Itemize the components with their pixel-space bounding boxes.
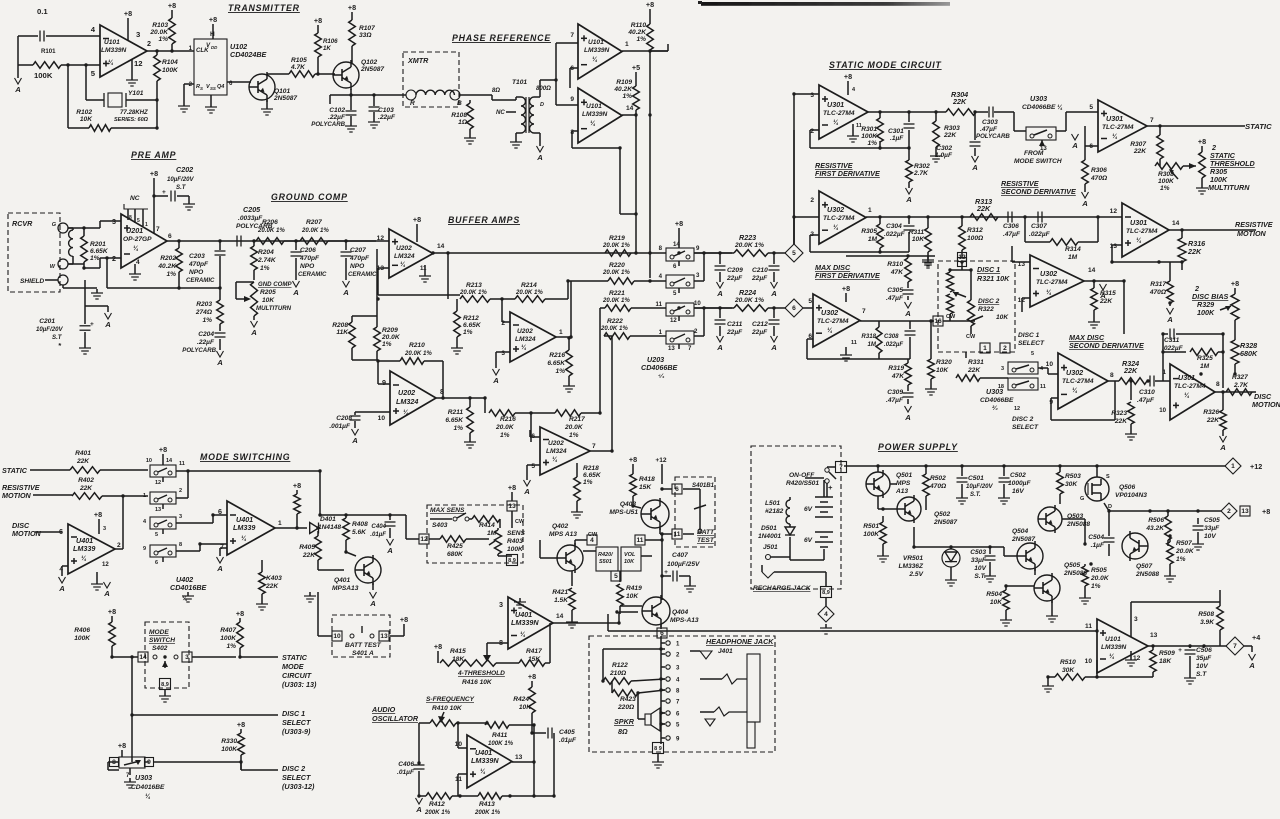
svg-text:R216: R216 <box>549 352 565 359</box>
svg-text:C103: C103 <box>378 107 394 114</box>
svg-text:¼: ¼ <box>81 555 87 562</box>
svg-text:R319: R319 <box>888 365 904 372</box>
svg-text:10: 10 <box>1159 407 1166 414</box>
svg-text:6: 6 <box>676 711 680 718</box>
svg-text:CD4016BE: CD4016BE <box>170 583 207 592</box>
svg-text:R421: R421 <box>552 589 568 596</box>
svg-text:S: S <box>200 86 203 91</box>
svg-text:A: A <box>58 584 65 593</box>
svg-text:R402: R402 <box>78 477 94 484</box>
svg-text:7: 7 <box>676 699 680 706</box>
svg-text:1%: 1% <box>500 432 510 439</box>
svg-text:R325: R325 <box>1197 355 1213 362</box>
svg-text:1000µF: 1000µF <box>1008 480 1031 487</box>
svg-text:2.7K: 2.7K <box>913 170 929 177</box>
svg-text:1N4148: 1N4148 <box>318 524 341 531</box>
svg-text:R326: R326 <box>1203 409 1219 416</box>
svg-text:R415: R415 <box>450 648 466 655</box>
svg-text:STATIC MODE CIRCUIT: STATIC MODE CIRCUIT <box>829 60 942 70</box>
svg-text:5: 5 <box>808 298 812 305</box>
svg-text:J501: J501 <box>763 544 778 551</box>
svg-text:8: 8 <box>676 688 680 695</box>
svg-text:3: 3 <box>185 654 189 661</box>
svg-text:1N4001: 1N4001 <box>758 533 781 540</box>
svg-text:11: 11 <box>851 340 857 346</box>
svg-text:9: 9 <box>143 546 146 552</box>
svg-text:10: 10 <box>146 458 152 464</box>
svg-text:+8: +8 <box>108 607 116 616</box>
svg-text:20.0K: 20.0K <box>1090 575 1110 582</box>
svg-text:13: 13 <box>508 503 516 510</box>
svg-text:220Ω: 220Ω <box>617 704 635 711</box>
svg-text:¼: ¼ <box>108 59 114 66</box>
svg-text:800Ω: 800Ω <box>536 85 551 92</box>
svg-text:R210: R210 <box>409 342 425 349</box>
svg-text:C204: C204 <box>198 331 214 338</box>
svg-text:1%: 1% <box>202 317 212 324</box>
svg-text:1: 1 <box>559 329 563 336</box>
svg-text:+8: +8 <box>844 72 852 81</box>
svg-text:SECOND DERIVATIVE: SECOND DERIVATIVE <box>1069 341 1144 350</box>
svg-text:10: 10 <box>1085 658 1093 665</box>
svg-text:77.28KHZ: 77.28KHZ <box>120 109 148 116</box>
svg-text:MPS-A13: MPS-A13 <box>670 617 699 624</box>
svg-text:D: D <box>540 102 544 108</box>
svg-text:4.7K: 4.7K <box>290 64 306 71</box>
svg-text:DISC 1: DISC 1 <box>977 265 1000 274</box>
svg-text:+4: +4 <box>1252 633 1260 642</box>
svg-text:100K 1%: 100K 1% <box>488 740 514 747</box>
svg-text:14: 14 <box>1172 220 1180 227</box>
svg-text:Q4: Q4 <box>217 84 224 90</box>
svg-text:6.65K: 6.65K <box>463 322 482 329</box>
svg-text:S401B1: S401B1 <box>692 482 715 489</box>
svg-text:¼: ¼ <box>1136 237 1142 244</box>
svg-text:A: A <box>904 413 911 422</box>
svg-text:+8: +8 <box>675 219 683 228</box>
svg-text:.01µF: .01µF <box>370 531 386 538</box>
svg-text:13: 13 <box>1110 243 1118 250</box>
svg-text:S402: S402 <box>152 645 168 652</box>
svg-text:(U303-12): (U303-12) <box>282 782 315 791</box>
svg-text:SWITCH: SWITCH <box>149 637 175 644</box>
svg-text:15K: 15K <box>639 484 652 491</box>
svg-text:11: 11 <box>674 531 681 538</box>
svg-text:3: 3 <box>136 30 140 39</box>
svg-text:+8: +8 <box>508 483 516 492</box>
svg-text:11: 11 <box>1085 623 1092 630</box>
svg-text:SENS: SENS <box>507 530 526 537</box>
svg-text:1: 1 <box>625 41 629 48</box>
svg-text:U202: U202 <box>517 328 533 335</box>
svg-text:.47µF: .47µF <box>886 295 904 302</box>
svg-text:C503: C503 <box>970 549 986 556</box>
svg-text:FIRST DERIVATIVE: FIRST DERIVATIVE <box>815 271 880 280</box>
svg-text:2: 2 <box>1227 508 1231 515</box>
svg-text:Q402: Q402 <box>552 523 568 530</box>
svg-text:22µF: 22µF <box>751 275 768 282</box>
svg-text:¼: ¼ <box>480 768 486 775</box>
svg-text:1%: 1% <box>260 265 270 272</box>
svg-text:¼: ¼ <box>833 224 839 231</box>
svg-text:R420/S501: R420/S501 <box>786 480 819 487</box>
svg-text:12: 12 <box>377 235 385 242</box>
svg-text:1%: 1% <box>622 93 632 100</box>
svg-text:U202: U202 <box>548 440 564 447</box>
svg-text:D401: D401 <box>320 516 336 523</box>
svg-text:C307: C307 <box>1031 223 1047 230</box>
svg-text:¼: ¼ <box>590 120 596 127</box>
svg-text:.22µF: .22µF <box>328 114 346 121</box>
svg-text:SHIELD: SHIELD <box>20 278 44 285</box>
svg-text:PRE AMP: PRE AMP <box>131 150 176 160</box>
svg-text:33Ω: 33Ω <box>359 32 372 39</box>
svg-text:Q404: Q404 <box>672 609 688 616</box>
svg-text:U101: U101 <box>588 39 604 46</box>
svg-text:7: 7 <box>862 308 866 315</box>
svg-text:7: 7 <box>570 32 574 39</box>
svg-text:R410 10K: R410 10K <box>432 705 463 712</box>
svg-text:R306: R306 <box>1091 167 1107 174</box>
svg-text:1%: 1% <box>453 425 463 432</box>
svg-text:C206: C206 <box>300 247 316 254</box>
svg-text:2: 2 <box>810 197 814 204</box>
svg-text:R311: R311 <box>909 229 925 236</box>
svg-text:¼: ¼ <box>133 245 139 252</box>
svg-text:3: 3 <box>1134 616 1138 623</box>
svg-text:¼: ¼ <box>833 119 839 126</box>
svg-text:10: 10 <box>333 633 341 640</box>
svg-text:R101: R101 <box>41 48 56 55</box>
svg-text:R209: R209 <box>382 327 398 334</box>
svg-text:R107: R107 <box>359 25 375 32</box>
svg-text:LM324: LM324 <box>546 448 567 455</box>
svg-text:POWER SUPPLY: POWER SUPPLY <box>878 442 958 452</box>
svg-text:8,9: 8,9 <box>508 558 516 564</box>
svg-text:MOTION: MOTION <box>1237 229 1267 238</box>
svg-text:22K: 22K <box>943 132 957 139</box>
svg-text:5: 5 <box>155 532 158 538</box>
svg-text:RCVR: RCVR <box>12 219 33 228</box>
svg-text:1%: 1% <box>583 479 593 486</box>
svg-text:A: A <box>351 436 358 445</box>
svg-text:¼: ¼ <box>592 56 598 63</box>
svg-text:+8: +8 <box>293 481 301 490</box>
svg-text:C306: C306 <box>1003 223 1019 230</box>
svg-text:A: A <box>536 153 543 162</box>
svg-text:#2182: #2182 <box>765 508 784 515</box>
svg-text:Q506: Q506 <box>1119 484 1135 491</box>
svg-text:Q504: Q504 <box>1012 528 1028 535</box>
svg-text:14: 14 <box>166 458 173 464</box>
svg-text:R102: R102 <box>76 109 92 116</box>
svg-text:A: A <box>716 289 723 298</box>
svg-text:5: 5 <box>673 290 677 297</box>
svg-text:DISC 1: DISC 1 <box>1018 332 1040 339</box>
svg-text:MPS: MPS <box>896 480 911 487</box>
svg-text:47K: 47K <box>891 373 905 380</box>
svg-text:C504: C504 <box>1088 534 1104 541</box>
svg-text:1%: 1% <box>463 329 473 336</box>
svg-text:VR501: VR501 <box>903 555 923 562</box>
svg-text:R321 10K: R321 10K <box>977 274 1010 283</box>
svg-text:C211: C211 <box>727 321 743 328</box>
svg-text:R222: R222 <box>607 318 623 325</box>
svg-text:+8: +8 <box>434 642 442 651</box>
svg-text:A: A <box>292 288 299 297</box>
svg-text:U302: U302 <box>1040 269 1057 278</box>
svg-text:²⁄₄: ²⁄₄ <box>992 405 998 412</box>
svg-text:1: 1 <box>278 520 282 527</box>
svg-text:TLC-27M4: TLC-27M4 <box>823 110 855 117</box>
svg-text:Q502: Q502 <box>934 511 950 518</box>
svg-text:1: 1 <box>676 641 680 648</box>
svg-text:¼: ¼ <box>241 535 247 542</box>
svg-text:20.0K: 20.0K <box>495 424 515 431</box>
svg-text:C210: C210 <box>752 267 768 274</box>
svg-text:470pF: 470pF <box>349 255 370 262</box>
svg-text:1%: 1% <box>1160 185 1170 192</box>
svg-text:2N5087: 2N5087 <box>933 519 957 526</box>
svg-text:8: 8 <box>440 387 444 396</box>
svg-text:R423: R423 <box>620 696 636 703</box>
svg-text:.47µF: .47µF <box>1137 397 1155 404</box>
svg-text:TLC-27M4: TLC-27M4 <box>1126 228 1158 235</box>
svg-text:10K: 10K <box>519 704 532 711</box>
svg-text:2: 2 <box>694 328 698 335</box>
svg-text:1%: 1% <box>382 341 392 348</box>
svg-text:22K: 22K <box>976 204 991 213</box>
svg-text:R327: R327 <box>1232 374 1248 381</box>
svg-text:3: 3 <box>501 350 505 357</box>
svg-text:10K: 10K <box>990 599 1003 606</box>
svg-text:R217: R217 <box>569 416 585 423</box>
svg-text:S.T: S.T <box>1196 671 1207 678</box>
svg-text:U303: U303 <box>1030 94 1047 103</box>
svg-text:¼: ¼ <box>521 344 527 351</box>
svg-text:Q505: Q505 <box>1064 562 1080 569</box>
svg-text:A: A <box>1071 141 1078 150</box>
svg-text:100K: 100K <box>162 67 179 74</box>
svg-text:8Ω: 8Ω <box>492 87 500 94</box>
svg-text:R507: R507 <box>1176 540 1192 547</box>
svg-text:C203: C203 <box>189 253 205 260</box>
svg-text:6: 6 <box>792 305 796 312</box>
svg-text:+8: +8 <box>150 169 158 178</box>
svg-text:30K: 30K <box>1062 667 1075 674</box>
svg-text:LM339N: LM339N <box>584 47 610 54</box>
svg-text:OP-27GP: OP-27GP <box>123 236 152 243</box>
svg-text:U202: U202 <box>396 245 412 252</box>
svg-text:C205: C205 <box>243 205 261 214</box>
svg-text:R212: R212 <box>463 315 479 322</box>
svg-text:470Ω: 470Ω <box>929 483 947 490</box>
svg-text:11: 11 <box>1040 384 1046 390</box>
svg-text:LM339N: LM339N <box>582 111 608 118</box>
svg-text:MPSA13: MPSA13 <box>332 585 359 592</box>
svg-text:R110: R110 <box>631 22 647 29</box>
svg-text:20.0K 1%: 20.0K 1% <box>257 227 285 234</box>
svg-text:16V: 16V <box>1012 488 1024 495</box>
svg-text:R416 10K: R416 10K <box>462 679 493 686</box>
svg-text:CIRCUIT: CIRCUIT <box>282 671 312 680</box>
svg-text:R213: R213 <box>466 282 482 289</box>
svg-text:S401 A: S401 A <box>352 650 374 657</box>
svg-text:U301: U301 <box>827 100 844 109</box>
svg-text:SS: SS <box>210 86 216 91</box>
svg-text:10K: 10K <box>626 593 639 600</box>
svg-text:R302: R302 <box>914 163 930 170</box>
svg-text:STATIC: STATIC <box>282 653 308 662</box>
svg-text:C407: C407 <box>672 552 688 559</box>
svg-text:9: 9 <box>570 96 574 103</box>
svg-text:R307: R307 <box>1130 141 1146 148</box>
svg-text:3: 3 <box>810 92 814 99</box>
svg-text:5: 5 <box>531 463 535 470</box>
svg-text:CERAMIC: CERAMIC <box>186 277 215 284</box>
svg-text:47K: 47K <box>890 269 904 276</box>
svg-text:+8: +8 <box>646 0 654 9</box>
svg-text:SELECT: SELECT <box>1012 424 1039 431</box>
svg-text:20.0K: 20.0K <box>1175 548 1195 555</box>
svg-text:10K: 10K <box>80 116 93 123</box>
svg-text:40.2K: 40.2K <box>157 263 177 270</box>
svg-text:AUDIO: AUDIO <box>371 705 396 714</box>
svg-text:POLYCARB: POLYCARB <box>182 347 216 354</box>
svg-text:MULTITURN: MULTITURN <box>256 305 292 312</box>
svg-text:.022µF: .022µF <box>884 231 906 238</box>
svg-text:¼: ¼ <box>403 409 409 416</box>
svg-text:R419: R419 <box>626 585 642 592</box>
svg-text:MULTITURN: MULTITURN <box>1208 183 1250 192</box>
svg-text:(U303: 13): (U303: 13) <box>282 680 317 689</box>
svg-text:6.65K: 6.65K <box>90 248 109 255</box>
svg-text:100K: 100K <box>220 635 237 642</box>
svg-text:TLC-27M4: TLC-27M4 <box>817 318 849 325</box>
svg-text:CW: CW <box>966 334 976 340</box>
svg-text:A: A <box>104 320 111 329</box>
svg-text:33µF: 33µF <box>1204 525 1220 532</box>
svg-text:470Ω: 470Ω <box>1149 289 1167 296</box>
svg-text:22K: 22K <box>1206 417 1220 424</box>
svg-text:SELECT: SELECT <box>1018 340 1045 347</box>
svg-text:R314: R314 <box>1065 246 1081 253</box>
svg-text:33µF: 33µF <box>971 557 987 564</box>
svg-text:R417: R417 <box>526 648 542 655</box>
svg-text:+8: +8 <box>94 510 102 519</box>
svg-text:+12: +12 <box>1250 462 1262 471</box>
svg-text:5.6K: 5.6K <box>352 529 367 536</box>
svg-text:R322: R322 <box>978 306 994 313</box>
svg-text:1Ω: 1Ω <box>458 119 468 126</box>
svg-text:2N5088: 2N5088 <box>1135 571 1159 578</box>
svg-text:+: + <box>162 189 166 196</box>
svg-text:R122: R122 <box>612 662 628 669</box>
svg-text:2: 2 <box>810 128 814 135</box>
svg-text:C209: C209 <box>727 267 743 274</box>
svg-text:1: 1 <box>868 207 872 214</box>
svg-text:R308: R308 <box>1158 171 1174 178</box>
svg-text:W: W <box>50 264 56 270</box>
svg-text:6: 6 <box>218 507 222 516</box>
svg-text:.22µF: .22µF <box>197 339 215 346</box>
svg-text:12: 12 <box>102 561 109 568</box>
svg-text:+8: +8 <box>159 445 167 454</box>
svg-text:A: A <box>103 589 110 598</box>
svg-text:A: A <box>369 599 376 608</box>
svg-text:12: 12 <box>1014 406 1020 412</box>
svg-text:U202: U202 <box>398 388 415 397</box>
svg-text:4: 4 <box>91 25 96 34</box>
svg-text:R424: R424 <box>513 696 529 703</box>
svg-text:13: 13 <box>668 345 675 352</box>
svg-text:LM324: LM324 <box>394 253 415 260</box>
svg-text:R408: R408 <box>352 521 368 528</box>
svg-text:C304: C304 <box>886 223 902 230</box>
svg-text:22K: 22K <box>952 97 967 106</box>
svg-text:Y101: Y101 <box>128 90 144 97</box>
svg-text:C201: C201 <box>39 318 55 325</box>
svg-text:MAX SENS: MAX SENS <box>430 507 465 514</box>
svg-text:4-THRESHOLD: 4-THRESHOLD <box>457 670 505 677</box>
svg-text:R317: R317 <box>1150 281 1166 288</box>
svg-text:20.0K 1%: 20.0K 1% <box>734 297 764 304</box>
svg-text:2N5087: 2N5087 <box>273 95 297 102</box>
svg-text:R201: R201 <box>90 241 106 248</box>
svg-text:12: 12 <box>155 480 161 486</box>
svg-text:R330: R330 <box>221 738 237 745</box>
svg-text:R218: R218 <box>583 465 599 472</box>
svg-text:10µF/20V: 10µF/20V <box>966 483 993 490</box>
svg-text:G: G <box>1080 496 1084 502</box>
svg-text:10: 10 <box>378 415 386 422</box>
svg-text:22K: 22K <box>1123 366 1138 375</box>
svg-text:S501: S501 <box>599 559 612 565</box>
svg-text:DD: DD <box>211 45 218 50</box>
svg-text:C308: C308 <box>884 333 899 340</box>
svg-text:DISC 2: DISC 2 <box>978 298 1000 305</box>
svg-text:R401: R401 <box>75 450 91 457</box>
svg-text:CW: CW <box>946 314 956 320</box>
svg-text:6: 6 <box>675 486 679 493</box>
svg-text:R108: R108 <box>451 112 467 119</box>
svg-text:C404: C404 <box>371 523 386 530</box>
svg-text:C303: C303 <box>982 119 998 126</box>
svg-text:TRANSMITTER: TRANSMITTER <box>228 3 300 13</box>
svg-text:1%: 1% <box>1091 583 1101 590</box>
svg-text:*: * <box>58 341 62 350</box>
svg-text:OSCILLATOR: OSCILLATOR <box>372 714 419 723</box>
svg-text:2.7K: 2.7K <box>1233 382 1249 389</box>
svg-text:R318: R318 <box>861 333 876 340</box>
svg-text:LM339: LM339 <box>233 523 255 532</box>
svg-text:C506: C506 <box>1196 647 1212 654</box>
svg-text:+8: +8 <box>1262 507 1270 516</box>
svg-text:6: 6 <box>155 560 158 566</box>
svg-text:R305: R305 <box>861 228 877 235</box>
svg-text:A: A <box>523 487 530 496</box>
svg-text:4: 4 <box>590 537 594 544</box>
svg-text:12: 12 <box>134 59 143 68</box>
svg-text:MOTION: MOTION <box>1252 400 1280 409</box>
svg-text:3: 3 <box>179 514 182 520</box>
svg-text:C406: C406 <box>398 761 414 768</box>
svg-text:DISC 2: DISC 2 <box>282 764 305 773</box>
svg-text:22K: 22K <box>1114 418 1128 425</box>
svg-text:MODE: MODE <box>149 629 169 636</box>
svg-text:5: 5 <box>91 69 96 78</box>
svg-text:22K: 22K <box>79 485 93 492</box>
